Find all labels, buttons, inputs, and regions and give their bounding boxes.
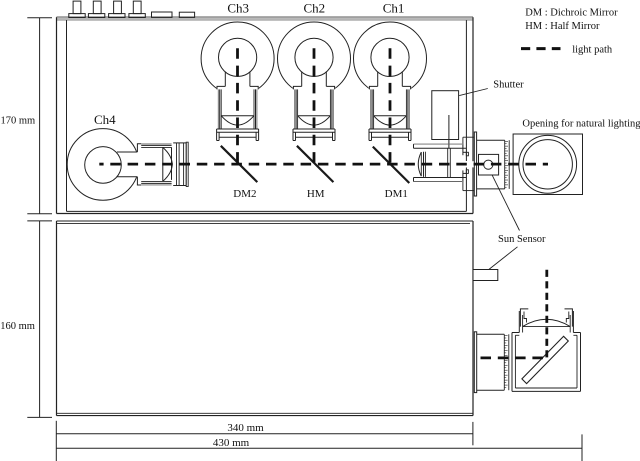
svg-text:Sun Sensor: Sun Sensor <box>498 234 546 245</box>
svg-text:170 mm: 170 mm <box>1 115 36 126</box>
svg-text:DM : Dichroic Mirror: DM : Dichroic Mirror <box>525 8 618 19</box>
svg-text:Opening for natural lighting: Opening for natural lighting <box>522 119 640 130</box>
svg-text:Ch4: Ch4 <box>94 112 116 127</box>
svg-text:430 mm: 430 mm <box>213 437 250 449</box>
svg-text:HM: HM <box>307 188 325 200</box>
svg-text:DM2: DM2 <box>233 188 256 200</box>
svg-text:160 mm: 160 mm <box>0 321 35 332</box>
svg-text:DM1: DM1 <box>385 188 408 200</box>
svg-text:Ch2: Ch2 <box>303 0 325 15</box>
svg-text:340 mm: 340 mm <box>227 422 264 434</box>
svg-text:Ch3: Ch3 <box>227 0 249 15</box>
svg-text:HM : Half Mirror: HM : Half Mirror <box>525 21 600 32</box>
svg-text:light path: light path <box>572 44 613 55</box>
svg-text:Shutter: Shutter <box>493 80 524 91</box>
svg-text:Ch1: Ch1 <box>383 0 405 15</box>
